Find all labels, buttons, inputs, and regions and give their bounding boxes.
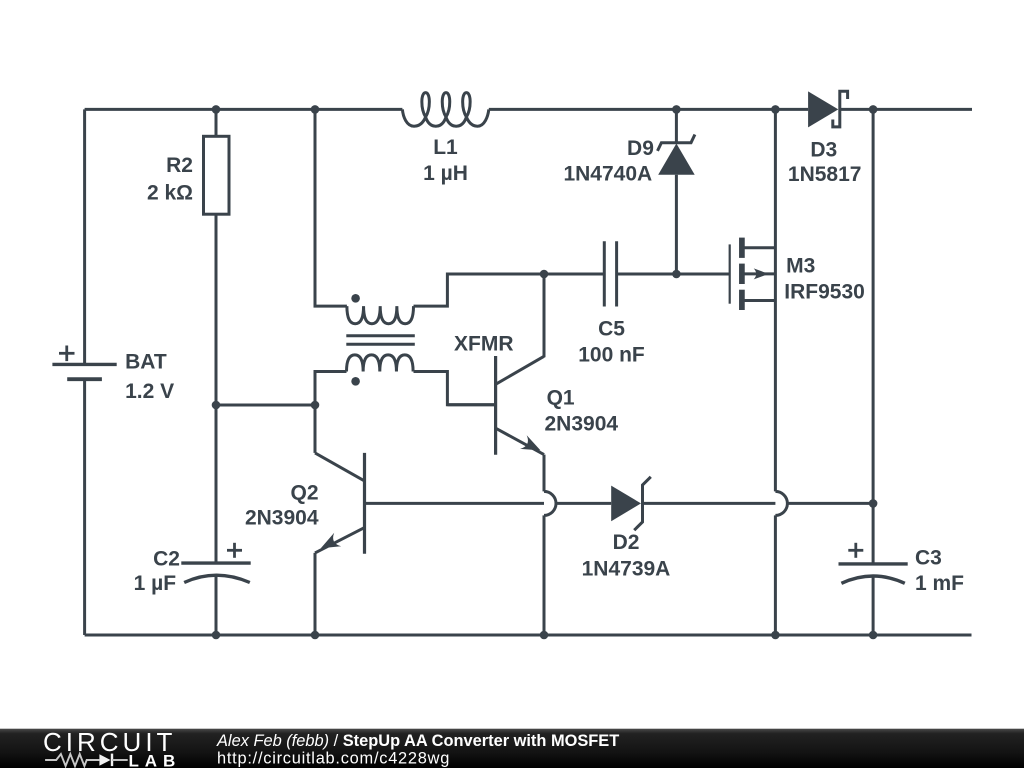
wire battery bottom <box>83 379 86 635</box>
label BAT <box>125 350 167 373</box>
wire top rail right segment <box>840 108 972 111</box>
label D9 <box>627 137 654 160</box>
footer url line <box>217 749 450 767</box>
svg-text:C2: C2 <box>153 547 180 570</box>
svg-text:C3: C3 <box>915 547 942 570</box>
logo LAB text <box>129 751 182 768</box>
transistor M3 gate bar <box>729 244 731 303</box>
diode D9 zener bar <box>658 135 695 151</box>
capacitor C3 top plate <box>839 562 908 565</box>
transistor Q1 base bar <box>494 356 497 455</box>
wire D2 right <box>643 502 874 505</box>
svg-text:2N3904: 2N3904 <box>545 412 619 435</box>
svg-text:IRF9530: IRF9530 <box>784 281 865 304</box>
label D9 value <box>563 163 652 186</box>
transformer XFMR primary coil <box>347 306 414 324</box>
svg-text:C5: C5 <box>598 317 625 340</box>
transistor M3 body arrow <box>754 268 769 279</box>
transistor M3 channel dashes <box>739 238 745 310</box>
node top rail at D3 cathode <box>869 105 878 114</box>
node bottom rail at Q1 <box>540 631 549 640</box>
label Q2 value <box>245 506 319 529</box>
wire Q1 base <box>447 403 495 406</box>
wire M3 drain <box>774 109 777 491</box>
label XFMR <box>454 332 514 355</box>
wire node A horizontal <box>216 404 315 407</box>
wire top rail middle segment <box>489 108 808 111</box>
logo diode <box>99 754 127 767</box>
capacitor C2 plus sign <box>227 543 242 558</box>
diode D9 triangle <box>658 144 695 175</box>
svg-text:XFMR: XFMR <box>454 332 514 355</box>
wire Q1 collector <box>496 274 544 384</box>
wire Q2 emitter <box>315 528 365 553</box>
diode D3 schottky bar <box>833 91 848 127</box>
transformer XFMR secondary coil <box>347 355 414 372</box>
battery BAT top plate <box>52 363 116 366</box>
battery BAT bottom plate <box>67 377 102 381</box>
svg-text:D9: D9 <box>627 137 654 160</box>
battery BAT plus sign <box>59 346 75 362</box>
svg-text:1.2 V: 1.2 V <box>125 380 174 403</box>
capacitor C5 <box>604 241 616 306</box>
node top rail at D3 anode <box>771 105 780 114</box>
logo resistor zigzag <box>45 754 99 766</box>
svg-text:2 kΩ: 2 kΩ <box>147 182 193 205</box>
wire hop Q1 emitter over D2 wire <box>544 491 556 515</box>
node D2 cathode rail <box>869 499 878 508</box>
label D2 value <box>582 558 671 581</box>
svg-text:1 µF: 1 µF <box>134 572 177 595</box>
label M3 value <box>784 281 865 304</box>
footer bar background <box>0 729 1024 768</box>
svg-text:100 nF: 100 nF <box>578 344 645 367</box>
wire D2 left <box>365 502 612 505</box>
transistor Q1 emitter arrow <box>520 435 540 450</box>
inductor L1 <box>402 93 488 127</box>
svg-text:1N5817: 1N5817 <box>788 163 862 186</box>
transistor M3 bottom terminal <box>742 299 776 302</box>
label BAT value <box>125 380 174 403</box>
svg-text:Q1: Q1 <box>547 386 575 409</box>
wire Q2 emitter down <box>314 553 317 635</box>
wire C5 left <box>544 273 604 276</box>
label C3 value <box>915 572 964 595</box>
svg-text:1 mF: 1 mF <box>915 572 964 595</box>
wire XFMR secondary left <box>315 372 347 406</box>
svg-text:http://circuitlab.com/c4228wg: http://circuitlab.com/c4228wg <box>217 749 450 767</box>
svg-text:R2: R2 <box>166 154 193 177</box>
wire right rail lower <box>872 577 875 635</box>
diode D2 triangle <box>611 486 641 522</box>
svg-text:LAB: LAB <box>129 751 182 768</box>
label M3 <box>786 254 815 277</box>
svg-text:D2: D2 <box>613 531 640 554</box>
label C5 value <box>578 344 645 367</box>
label C2 <box>153 547 180 570</box>
capacitor C3 curved plate <box>841 576 904 583</box>
capacitor C3 plus sign <box>848 543 863 558</box>
transformer XFMR core <box>346 336 415 344</box>
wire bottom rail <box>85 634 972 637</box>
footer author and title line <box>216 732 619 750</box>
resistor R2 <box>204 136 230 214</box>
node bottom rail at Q2 <box>311 631 320 640</box>
transistor Q2 base bar <box>363 453 366 554</box>
label D3 value <box>788 163 862 186</box>
label Q1 <box>547 386 575 409</box>
wire M3 gate <box>676 273 729 276</box>
wire C2 bottom <box>215 576 218 635</box>
label D3 <box>810 138 837 161</box>
node C5 right <box>672 270 681 279</box>
logo CIRCUIT text <box>43 727 176 757</box>
svg-text:1 µH: 1 µH <box>423 162 468 185</box>
wire Q1 emitter down <box>543 455 546 635</box>
node bottom rail at M3 <box>771 631 780 640</box>
transistor M3 middle terminal <box>742 272 776 275</box>
label Q2 <box>290 482 318 505</box>
wire M3 source <box>774 515 777 635</box>
svg-text:M3: M3 <box>786 254 815 277</box>
transistor Q2 emitter arrow <box>321 533 341 548</box>
node top rail at D9 <box>672 105 681 114</box>
label C3 <box>915 547 942 570</box>
label D2 <box>613 531 640 554</box>
node A right <box>311 401 320 410</box>
node bottom rail at C3 <box>869 631 878 640</box>
label R2 value <box>147 182 193 205</box>
capacitor C2 curved plate <box>184 575 250 582</box>
svg-text:Q2: Q2 <box>290 482 318 505</box>
diode D3 triangle <box>808 91 838 127</box>
label C2 value <box>134 572 177 595</box>
transformer XFMR secondary polarity dot <box>351 377 360 386</box>
svg-text:Alex Feb (febb) / StepUp AA Co: Alex Feb (febb) / StepUp AA Converter wi… <box>216 732 619 750</box>
transformer XFMR primary polarity dot <box>351 294 360 303</box>
wire D9 top <box>675 109 678 142</box>
node C5 left <box>540 270 549 279</box>
svg-text:L1: L1 <box>433 136 458 159</box>
wire hop M3 source over D2 wire <box>775 491 787 515</box>
svg-text:2N3904: 2N3904 <box>245 506 319 529</box>
svg-text:1N4740A: 1N4740A <box>563 163 652 186</box>
wire XFMR secondary right <box>414 372 496 405</box>
label L1 value <box>423 162 468 185</box>
svg-text:BAT: BAT <box>125 350 167 373</box>
svg-text:1N4739A: 1N4739A <box>582 558 671 581</box>
label R2 <box>166 154 193 177</box>
wire Q1 emitter <box>496 428 544 454</box>
wire Q2 collector <box>315 405 365 481</box>
wire C5 right <box>617 273 677 276</box>
diode D2 zener bar <box>634 477 651 530</box>
wire XFMR primary right <box>414 274 545 306</box>
node top rail at XFMR <box>311 105 320 114</box>
wire battery top <box>83 109 86 364</box>
label L1 <box>433 136 458 159</box>
wire R2 top <box>215 109 218 136</box>
wire R2 bottom <box>215 214 218 563</box>
node A left <box>212 401 221 410</box>
wire XFMR primary left <box>315 109 347 306</box>
wire top rail left segment <box>85 108 403 111</box>
wire D9 bottom <box>675 175 678 274</box>
transistor M3 top terminal <box>742 246 776 249</box>
svg-text:D3: D3 <box>810 138 837 161</box>
label Q1 value <box>545 412 619 435</box>
wire right rail upper <box>872 109 875 564</box>
node bottom rail at C2 <box>212 631 221 640</box>
label C5 <box>598 317 625 340</box>
node top rail at R2 <box>212 105 221 114</box>
capacitor C2 top plate <box>181 561 250 564</box>
